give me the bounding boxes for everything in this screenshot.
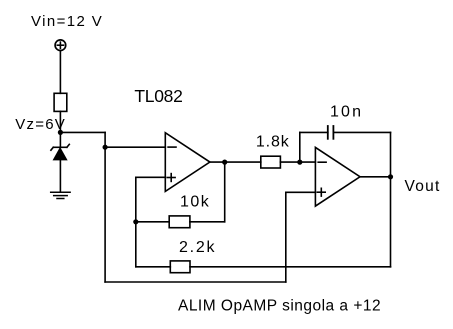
wire opamp1 output <box>210 161 261 163</box>
node dot opamp1 output <box>222 160 227 165</box>
resistor 10k <box>169 216 190 228</box>
zener diode D1 <box>51 144 69 160</box>
wire R1 to node Vz <box>59 111 61 132</box>
wire output down to 10k <box>224 162 226 222</box>
resistor R1 (vertical) <box>54 93 67 111</box>
node dot feedback <box>133 219 138 224</box>
wire to opamp1 minus input <box>105 146 165 148</box>
svg-text:Vin=12 V: Vin=12 V <box>31 13 102 30</box>
wire 2.2k right to Vout rail <box>190 266 391 268</box>
wire cap left <box>300 131 328 133</box>
wire down left rail <box>104 132 106 282</box>
op-amp U1A <box>165 133 210 192</box>
ground <box>51 192 70 198</box>
wire 10k right side <box>190 221 225 223</box>
wire 10k left side <box>136 221 169 223</box>
svg-text:10k: 10k <box>180 194 210 211</box>
svg-text:2.2k: 2.2k <box>179 239 216 256</box>
svg-text:ALIM OpAMP singola a +12: ALIM OpAMP singola a +12 <box>178 297 381 314</box>
op-amp U1B <box>315 147 360 206</box>
wire opamp2 output <box>360 176 391 178</box>
wire opamp2 plus input <box>286 191 316 193</box>
wire plus down <box>285 192 287 282</box>
wire plus-node down <box>135 177 137 266</box>
resistor 2.2k <box>170 261 190 273</box>
wire cap right <box>333 131 390 133</box>
wire cap branch up <box>299 132 301 162</box>
node Vz junction dot <box>58 130 63 135</box>
svg-text:1.8k: 1.8k <box>256 134 290 151</box>
svg-text:TL082: TL082 <box>134 86 182 106</box>
wire 1.8k to node <box>280 161 315 163</box>
capacitor C1 10n <box>328 126 334 139</box>
wire zener to ground <box>59 160 61 192</box>
wire Vz node right <box>60 131 105 133</box>
node dot opamp2 minus <box>297 160 302 165</box>
supply symbol V+ <box>55 40 66 51</box>
node dot Vout <box>388 174 393 179</box>
wire Vout rail up <box>390 177 392 267</box>
wire 2.2k left side <box>136 266 171 268</box>
wire supply to R1 <box>59 51 61 94</box>
svg-text:10n: 10n <box>330 104 361 121</box>
resistor 1.8k <box>261 156 281 168</box>
node dot left rail <box>103 145 108 150</box>
wire opamp1 plus input <box>136 176 166 178</box>
svg-text:Vz=6V: Vz=6V <box>15 116 65 133</box>
wire Vz node to zener <box>59 132 61 147</box>
svg-text:Vout: Vout <box>405 178 440 195</box>
bottom wire <box>105 281 286 283</box>
wire cap down to Vout <box>390 132 392 176</box>
